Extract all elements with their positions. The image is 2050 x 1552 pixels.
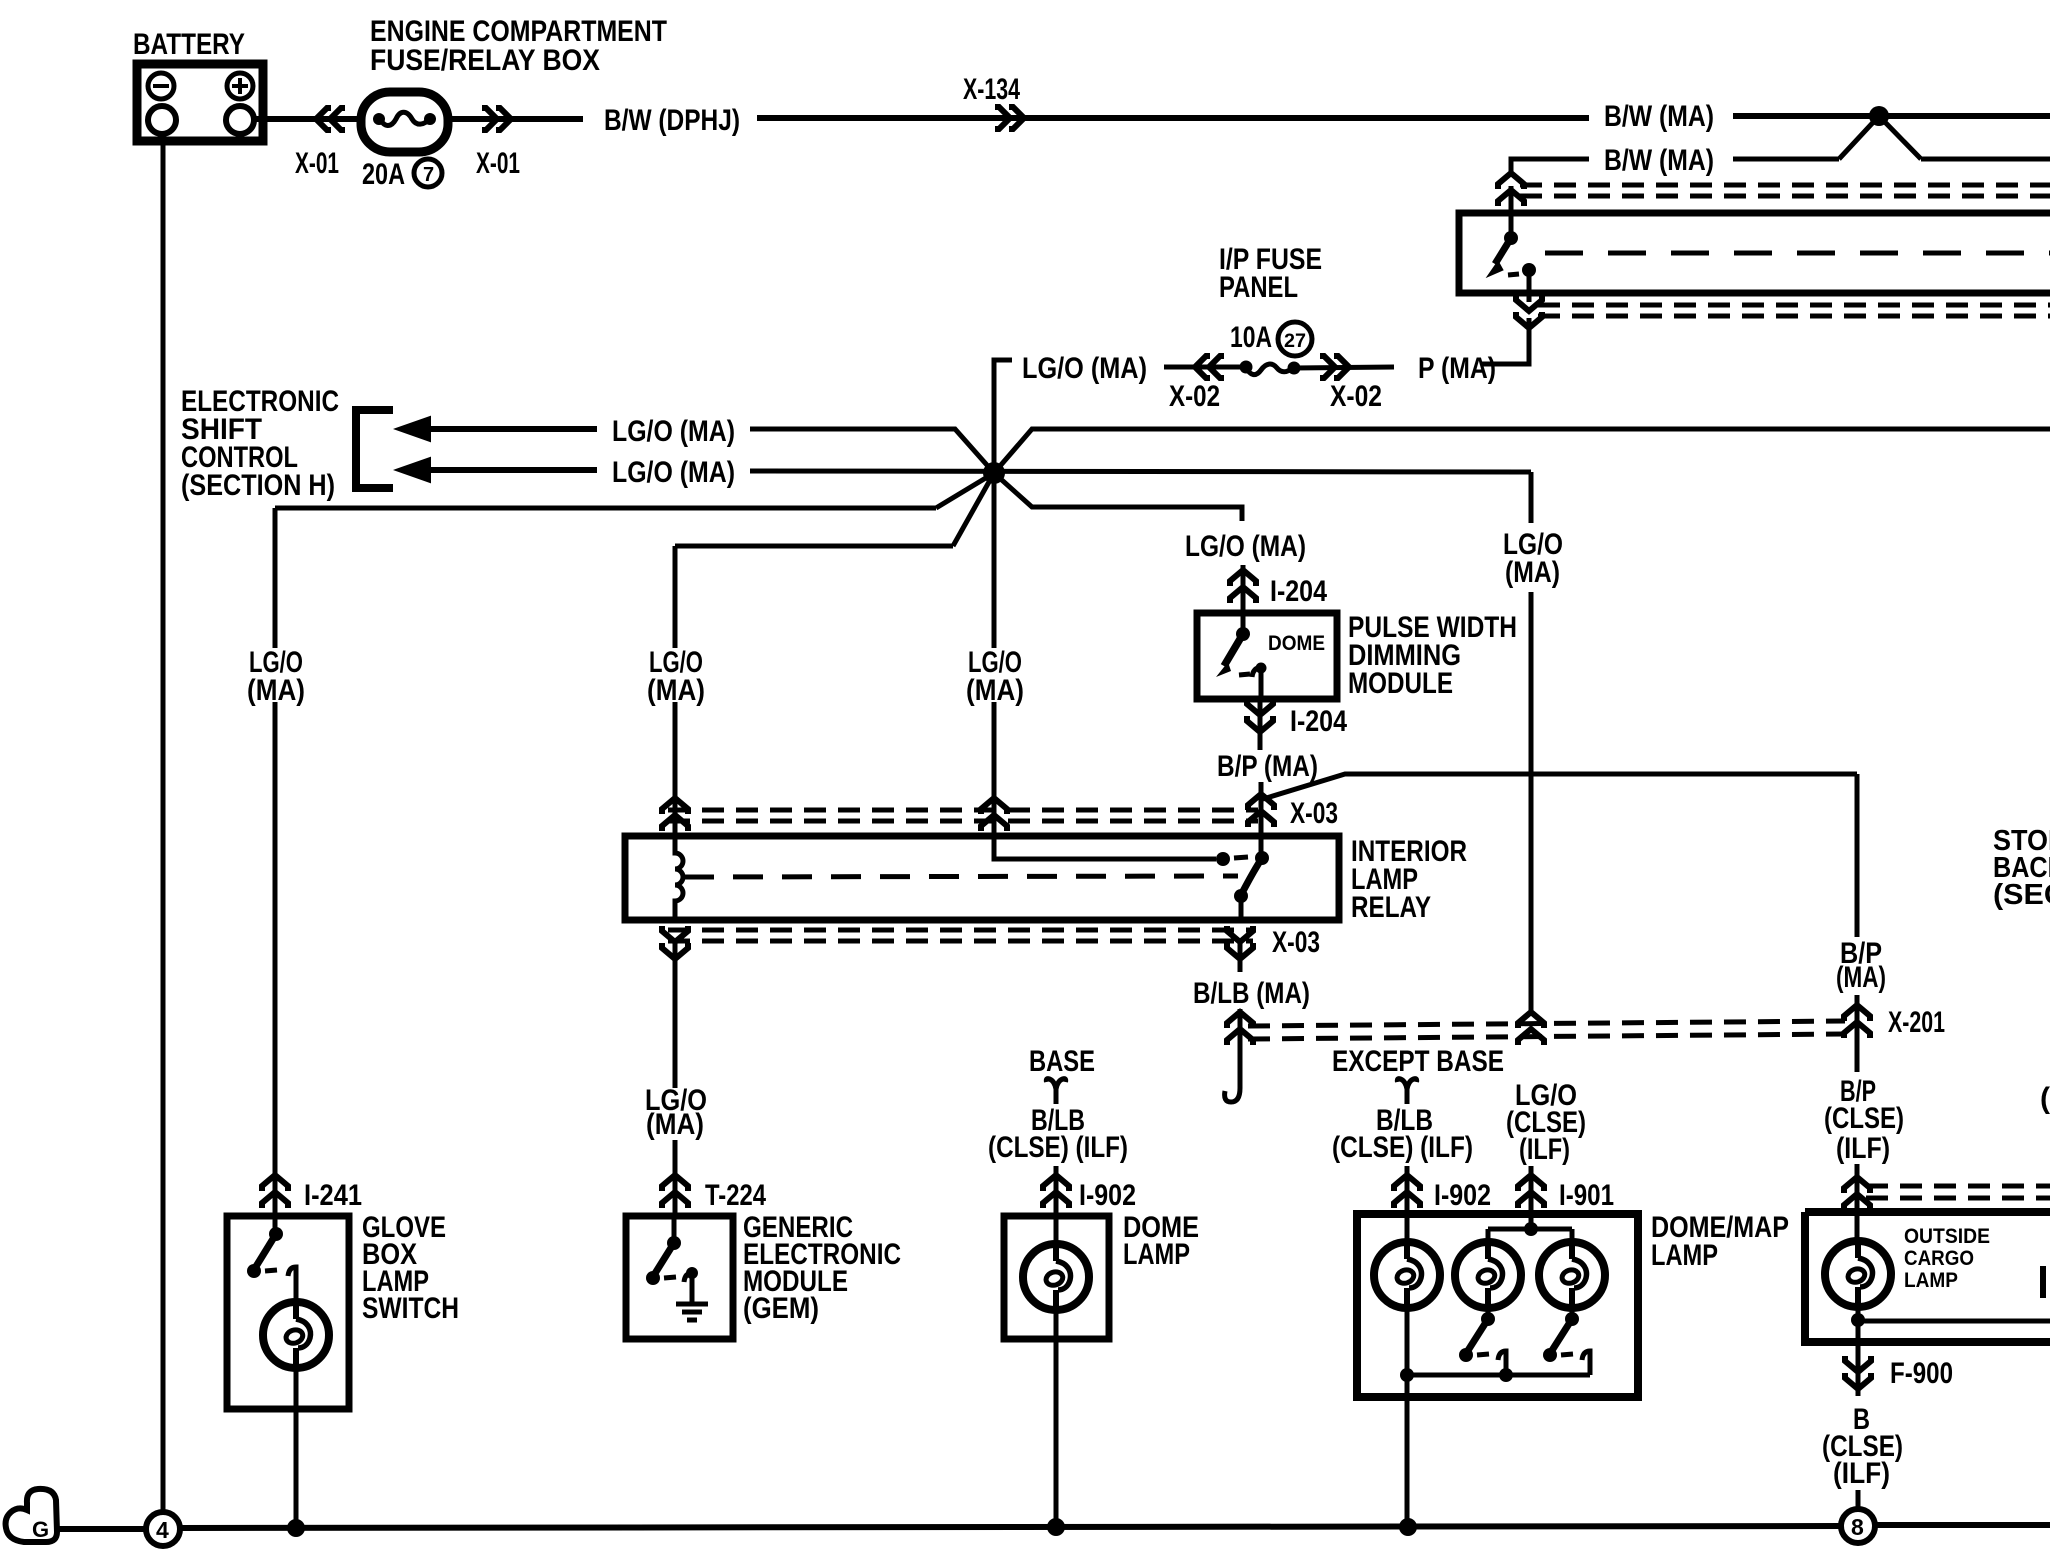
svg-text:(C: (C [2040,1082,2050,1115]
svg-text:B/W (MA): B/W (MA) [1604,100,1714,133]
internal return bus in dome/map [1400,1368,1590,1382]
connector X-02 left [1169,356,1224,413]
relay switch [1234,836,1269,920]
wire branch to glove box (left low 1) [275,473,994,648]
connector I-902 dome-map [1394,1166,1491,1213]
wire branch lambda to second B/W line [1839,116,1921,159]
svg-text:LG/O (MA): LG/O (MA) [612,415,735,448]
wire label LG/O (MA) before fuse [1022,352,1147,385]
svg-text:8: 8 [1851,1514,1864,1540]
GEM label [743,1211,901,1325]
wire label LG/O (MA) GEM column [647,646,705,707]
wire label LG/O (MA) dimming branch [1185,530,1306,563]
lamp 2 in dome/map [1455,1239,1521,1311]
svg-text:X-201: X-201 [1888,1006,1945,1039]
lamp 3 in dome/map [1539,1239,1605,1311]
switch under lamp 3 [1543,1308,1590,1375]
glove box lamp switch box [227,1216,349,1409]
ground bus wire [57,1525,2050,1529]
svg-text:(CLSE): (CLSE) [1824,1102,1904,1135]
svg-text:I-902: I-902 [1434,1179,1491,1212]
outside cargo lamp box [1805,1212,2050,1342]
svg-text:(SECTION H): (SECTION H) [181,469,335,502]
svg-text:T-224: T-224 [705,1179,766,1212]
svg-text:(ILF): (ILF) [1833,1457,1890,1490]
wire right branch down [1529,592,1534,1014]
relay coil [675,836,683,920]
svg-text:B/W (MA): B/W (MA) [1604,144,1714,177]
connector X-03 chevrons bottom row [662,926,1253,959]
label X-03 bottom [1272,926,1320,959]
svg-text:X-134: X-134 [963,73,1020,106]
connector I-204 bottom [1247,699,1347,750]
dome lamp box [1004,1216,1109,1339]
ground connector circle 8 [1841,1509,1875,1543]
svg-text:FUSE/RELAY BOX: FUSE/RELAY BOX [370,44,600,77]
label X-201 [1888,1006,1945,1039]
switch under lamp 2 [1459,1308,1506,1375]
svg-text:10A: 10A [1230,321,1272,354]
relay switch top right [1487,213,1536,293]
wire into cargo lamp with connector [1844,1164,1870,1241]
svg-text:(CLSE) (ILF): (CLSE) (ILF) [988,1131,1128,1164]
wire label B/LB (CLSE)(ILF) dome [988,1104,1128,1164]
wire branch to dimming module (right down) [994,473,1242,521]
lamp in cargo box [1825,1238,1891,1310]
svg-text:X-01: X-01 [476,147,520,180]
svg-text:LAMP: LAMP [1123,1238,1190,1271]
svg-text:I-241: I-241 [304,1179,362,1212]
ground symbol in GEM [676,1267,708,1320]
wire right corner down to LG/O label [1529,472,1534,523]
GEM box [626,1216,733,1339]
svg-text:LAMP: LAMP [1651,1239,1718,1272]
connector chevrons below relay [1516,293,1542,328]
switch inside dimming module [1216,613,1267,699]
wire label B/LB (MA) [1193,977,1310,1010]
svg-text:(ILF): (ILF) [1519,1133,1570,1166]
svg-text:(CLSE) (ILF): (CLSE) (ILF) [1332,1131,1473,1164]
wire B/LB below relay [1238,943,1243,972]
battery label [133,28,245,61]
svg-text:27: 27 [1284,331,1306,352]
svg-text:I-901: I-901 [1559,1179,1614,1212]
dome/map lamp label [1651,1211,1789,1272]
glove box lamp switch label [362,1211,459,1325]
connector X-02 right [1320,356,1382,413]
wire line 2 through junction to right corner [750,471,1531,472]
arrow into shift control line 2 [396,458,597,482]
wire to ground circle 8 [1856,1490,1861,1510]
svg-text:X-03: X-03 [1290,797,1338,830]
wire label B/W (DPHJ) [604,104,740,137]
connector I-902 dome [1043,1166,1136,1213]
svg-text:(SECTI: (SECTI [1993,879,2050,911]
svg-text:X-01: X-01 [295,147,339,180]
wire center column down to relay [992,702,997,833]
wire label B/W (MA) second [1604,144,1714,177]
svg-text:PANEL: PANEL [1219,271,1298,304]
connector X-201 double dashed [1248,1021,1845,1039]
svg-text:(GEM): (GEM) [743,1292,819,1325]
wire label LG/O (MA) right branch [1503,528,1563,589]
dome/map lamp box [1357,1214,1638,1397]
ground connector circle 4 [146,1512,180,1546]
wire glove lamp to ground bus [287,1368,305,1537]
svg-text:20A: 20A [362,158,405,191]
label DOME inside module [1268,632,1325,655]
svg-text:I-204: I-204 [1290,705,1347,738]
switch in GEM [646,1216,692,1302]
svg-text:(MA): (MA) [1505,556,1560,589]
wire stub from LG/O vertical top [994,360,1012,648]
connector double dashed line below relay [1538,305,2050,316]
connector I-241 [262,1174,362,1213]
wire label B/W (MA) top [1604,100,1714,133]
wire label LG/O (MA) line 2 [612,456,735,489]
pulse width dimming module box U1 [1197,613,1337,699]
wire B/P down right side [1855,774,1860,937]
wire dome/map to ground bus [1399,1308,1417,1536]
wire label LG/O (MA) above GEM [645,1084,707,1141]
connector double dashed line top right [1520,185,2050,196]
lamp in dome box [1023,1216,1089,1313]
connector T-224 [662,1140,766,1213]
svg-text:BASE: BASE [1029,1045,1095,1078]
connector I-901 [1518,1166,1614,1213]
svg-text:B/LB (MA): B/LB (MA) [1193,977,1310,1010]
connector X-03 chevrons top row [662,794,1274,831]
pulse width dimming module label [1348,611,1517,700]
svg-text:LG/O (MA): LG/O (MA) [1022,352,1147,385]
wire line 1 to junction and right edge [750,429,2050,473]
svg-text:LG/O (MA): LG/O (MA) [612,456,735,489]
wire label B/P (MA) [1217,750,1318,783]
switch in glove box [247,1216,296,1302]
relay internal dashed link top right [1545,251,2050,256]
wire B/W (MA) to right edge [1733,113,2050,119]
connector X-01 left [295,108,345,180]
svg-text:4: 4 [156,1517,169,1543]
wire battery plus to fuse [254,116,361,122]
interior lamp relay label [1351,835,1467,924]
svg-text:MODULE: MODULE [1348,667,1453,700]
wire label LG/O (CLSE)(ILF) [1506,1079,1586,1166]
node and wire right inside cargo box [1851,1307,2050,1355]
svg-text:BATTERY: BATTERY [133,28,245,61]
svg-text:LAMP: LAMP [1904,1269,1958,1292]
relay feed wire from center column [994,833,1248,866]
fuse 10A (27) [1164,321,1394,375]
wire glove box column down [273,702,278,1174]
wire GEM column down to relay [673,702,678,833]
electronic shift control label [181,385,339,502]
svg-text:(MA): (MA) [1836,961,1886,994]
svg-text:OUTSIDE: OUTSIDE [1904,1225,1990,1248]
label cut at edge near cargo [2040,1082,2050,1115]
wire label P (MA) [1418,352,1496,385]
ground symbol G [6,1489,57,1542]
label BASE with fork [1029,1045,1095,1104]
wire branch to GEM (left low 2) [675,473,994,648]
I/P fuse panel label [1219,243,1322,304]
wire corner into ignition relay [1511,159,1589,172]
fuse 20A (7) [361,92,448,191]
svg-text:X-02: X-02 [1330,380,1382,413]
relay internal dashed link [684,876,1238,877]
wire label B/P (MA) right [1836,937,1886,994]
connector F-900 [1845,1355,1953,1396]
wire B/LB to X-201 and hook end [1225,1009,1240,1102]
engine compartment fuse/relay box label [370,15,667,77]
relay box top right [1459,213,2050,293]
connector X-01 right [476,108,520,180]
outside cargo lamp label [1904,1225,1990,1292]
wire relay output down to P (MA) [1481,318,1529,364]
connector X-134 [963,73,1024,129]
label EXCEPT BASE with fork [1332,1045,1504,1104]
lamp 1 in dome/map [1374,1214,1440,1311]
label X-03 top [1290,797,1338,830]
wire fuse to X-01 right [448,116,583,122]
wire label B (CLSE)(ILF) [1822,1403,1903,1490]
wire GEM column below relay [673,943,678,1088]
wire battery negative down to ground bus [161,134,166,1513]
svg-text:P (MA): P (MA) [1418,352,1496,385]
shift control bracket [356,410,393,488]
svg-text:DOME: DOME [1268,632,1325,655]
svg-text:B/W (DPHJ): B/W (DPHJ) [604,104,740,137]
wire B/W to X-134 and onward [757,115,1589,121]
svg-text:CARGO: CARGO [1904,1247,1974,1270]
wire label LG/O (MA) line 1 [612,415,735,448]
connector X-03 double dashed bottom [668,930,1253,941]
arrow into shift control line 1 [396,417,597,441]
svg-text:LG/O (MA): LG/O (MA) [1185,530,1306,563]
connector chevrons into relay [1498,173,1524,213]
connector double dashed cargo [1866,1186,2050,1198]
wire label B/LB (CLSE)(ILF) dome-map [1332,1104,1473,1164]
svg-text:G: G [32,1517,49,1542]
wire dome lamp to ground bus [1047,1310,1065,1536]
node junction on B/W [1869,106,1889,126]
svg-text:(ILF): (ILF) [1836,1132,1890,1165]
label STOP AND BACKUP cut at edge [1993,825,2050,911]
svg-text:7: 7 [423,164,434,186]
connector X-03 double dashed top [668,810,1258,821]
svg-text:B/P (MA): B/P (MA) [1217,750,1318,783]
svg-text:EXCEPT BASE: EXCEPT BASE [1332,1045,1504,1078]
svg-text:(MA): (MA) [646,1108,704,1141]
svg-text:SWITCH: SWITCH [362,1292,459,1325]
dome lamp label [1123,1211,1199,1271]
lamp in glove box [263,1299,329,1371]
wire B/P through X-201 [1855,995,1860,1072]
wire label LG/O (MA) center column [966,646,1024,707]
node star junction [983,462,1005,484]
svg-text:F-900: F-900 [1890,1357,1953,1390]
svg-text:RELAY: RELAY [1351,891,1431,924]
connector X-201 chevrons [1227,1005,1870,1045]
svg-text:I-902: I-902 [1079,1179,1136,1212]
wire B/P down to relay with branch right [1261,774,1857,836]
svg-text:X-02: X-02 [1169,380,1220,413]
wire second B/W (MA) line [1733,157,2050,162]
connector I-204 top [1230,565,1327,612]
svg-text:I-204: I-204 [1270,575,1327,608]
wire label B/P (CLSE)(ILF) [1824,1075,1904,1165]
partial lamp at right edge [2040,1266,2046,1298]
wire label LG/O (MA) left column [247,646,305,707]
map lamp feed tee [1488,1214,1572,1244]
svg-text:X-03: X-03 [1272,926,1320,959]
interior lamp relay box K1 [625,836,1339,920]
battery [137,64,263,141]
